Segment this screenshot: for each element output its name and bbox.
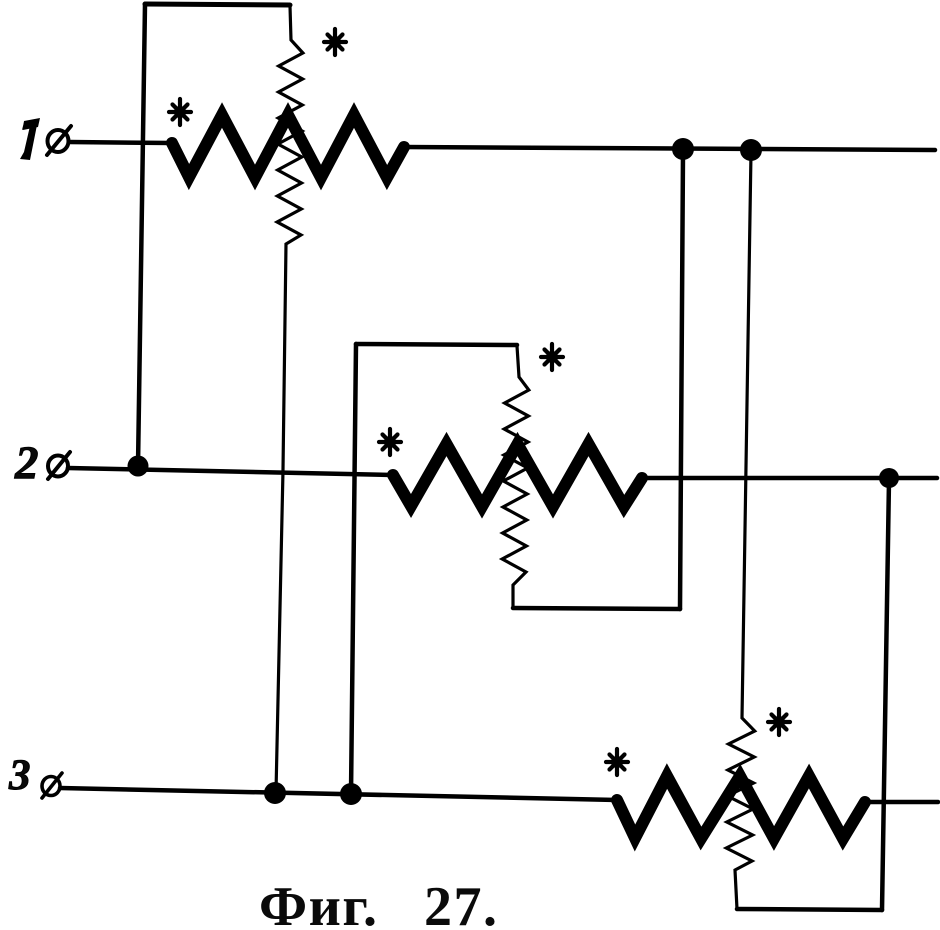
svg-text:Фиг.: Фиг. <box>259 876 378 930</box>
wire loop L1 top <box>145 4 290 5</box>
terminal circle phase 1 <box>47 126 71 155</box>
wire loop L2 left drop to phase 3 <box>351 344 356 794</box>
wire loop L3 bottom <box>737 909 882 910</box>
junction dot node A phase2 / loop L1 <box>128 456 149 477</box>
asterisk polarity mark winding W2 secondary <box>541 344 563 370</box>
asterisk polarity mark winding W2 primary <box>379 429 401 455</box>
winding W3 secondary thin zigzag from phase 1 <box>726 152 754 909</box>
asterisk polarity mark winding W3 primary <box>606 749 628 775</box>
winding W2 secondary thin zigzag <box>502 346 529 608</box>
wire loop L2 bottom <box>513 608 680 609</box>
terminal label 1 <box>20 118 40 160</box>
junction dot node C phase1 / winding W3 secondary <box>740 139 762 161</box>
junction dot node F phase3 / loop L2 left <box>340 783 362 805</box>
wire loop L3 right riser to phase 2 <box>882 480 889 910</box>
wire phase 1 right <box>404 147 935 150</box>
winding W1 primary thick zigzag phase 1 <box>172 115 404 178</box>
wire loop L2 right riser to phase 1 <box>680 152 683 609</box>
terminal circle phase 3 <box>42 773 62 798</box>
wire phase 1 left <box>69 142 172 143</box>
asterisk polarity mark winding W1 secondary <box>324 29 346 55</box>
winding W1 secondary thin zigzag with tail to phase 3 <box>276 6 303 792</box>
svg-text:3: 3 <box>8 752 31 799</box>
svg-text:2: 2 <box>14 437 39 489</box>
wire phase 3 right <box>865 800 938 805</box>
junction dot node E phase3 / winding W1 secondary <box>264 782 286 804</box>
asterisk polarity mark winding W1 primary <box>169 99 191 125</box>
winding W3 primary thick zigzag phase 3 <box>617 776 865 839</box>
wire phase 2 left <box>68 468 393 475</box>
wire loop L1 left drop to phase 2 <box>138 4 145 466</box>
junction dot node B phase1 / loop L2 <box>672 138 694 160</box>
wire phase 2 right <box>642 476 937 481</box>
terminal circle phase 2 <box>48 452 70 479</box>
winding W2 primary thick zigzag phase 2 <box>393 444 642 507</box>
wire loop L2 top <box>356 344 517 345</box>
asterisk polarity mark winding W3 secondary <box>768 709 790 735</box>
svg-text:27.: 27. <box>424 876 499 930</box>
wire phase 3 left <box>60 788 617 800</box>
junction dot node D phase2 / loop L3 <box>879 468 899 488</box>
